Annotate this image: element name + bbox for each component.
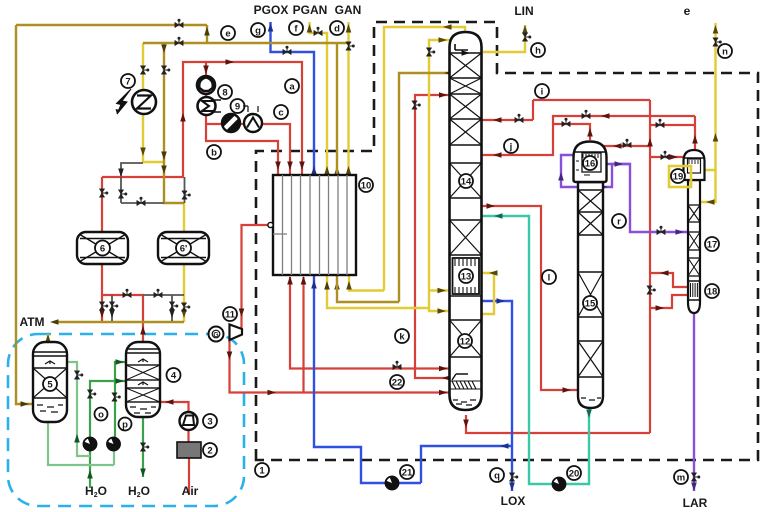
- wire red header y177: [102, 176, 184, 178]
- wire argon loop at condenser 16: [561, 155, 630, 187]
- text LAR: [683, 496, 708, 510]
- svg-text:g: g: [255, 26, 261, 37]
- wire stream c: booster discharge via aftercooler to HX: [206, 124, 290, 175]
- label 22: [390, 375, 404, 389]
- wire crude oxygen column 12 bottom to riser x650: [466, 415, 650, 433]
- svg-text:l: l: [548, 273, 551, 284]
- svg-text:2: 2: [207, 446, 212, 457]
- svg-text:16: 16: [585, 159, 596, 170]
- pipe light green water: [48, 362, 114, 465]
- turboexpander 11: [230, 325, 243, 341]
- bright yellow arrows: [45, 24, 718, 343]
- label 17: [705, 237, 719, 251]
- svg-text:17: 17: [707, 240, 718, 251]
- wire valved jumper y125: [650, 124, 695, 126]
- wire stream r: crude argon to column 17: [604, 164, 688, 232]
- motor G: [209, 327, 224, 342]
- svg-text:3: 3: [207, 417, 212, 428]
- wire PGOX product from HX top: [271, 22, 315, 175]
- text PGAN: [293, 3, 328, 17]
- pipe purple argon: [561, 155, 694, 491]
- svg-text:G: G: [213, 332, 219, 339]
- water pump p (right): [107, 438, 120, 451]
- label r: [612, 214, 626, 228]
- grey arrows: [109, 169, 175, 319]
- green arrows: [74, 359, 146, 478]
- condenser 13 internals: [453, 258, 480, 294]
- svg-text:8: 8: [222, 88, 227, 99]
- label 15: [583, 296, 597, 310]
- label 20: [567, 466, 581, 480]
- label a: [285, 79, 299, 93]
- wire LIN product from column 14: [483, 25, 525, 52]
- wire regeneration crossover header: [121, 177, 185, 203]
- LOX pump 21: [386, 477, 399, 490]
- wire PGAN product riser: [310, 22, 328, 175]
- wire riser to condenser 16: [604, 145, 650, 147]
- olive arrows: [21, 27, 453, 407]
- wire LOX product outlet: [511, 446, 513, 491]
- label 18: [705, 284, 719, 298]
- booster pump stage: [222, 114, 240, 132]
- wire HX bottom outlet to turbine exhaust line: [302, 277, 304, 393]
- water pump o (left): [84, 438, 97, 451]
- label e: [221, 26, 235, 40]
- svg-text:12: 12: [460, 337, 471, 348]
- label 19: [671, 169, 685, 183]
- column 15 shell: [578, 182, 603, 408]
- text H2O (left): [85, 484, 107, 499]
- text LOX: [501, 494, 526, 508]
- svg-text:k: k: [399, 332, 405, 343]
- wire condenser 13 side loop: [482, 273, 494, 314]
- wire HX cold end yellow riser 3: [327, 276, 429, 308]
- svg-text:n: n: [722, 47, 728, 58]
- wire ATM vent header: [57, 321, 184, 323]
- wire compressor 3 to adsorber 4 and air intake via filter 2: [160, 402, 189, 494]
- wire vent manifold stubs: [112, 295, 184, 321]
- label l: [542, 270, 556, 284]
- wire feed column 14 to column 15: [482, 206, 578, 390]
- wire air stream a: riser x183 to top header y62 into HX: [183, 62, 302, 177]
- label 21: [400, 465, 414, 479]
- svg-text:11: 11: [225, 310, 236, 321]
- label d: [330, 21, 344, 35]
- svg-text:14: 14: [461, 177, 472, 188]
- text GAN: [335, 3, 362, 17]
- wire nitrogen through compressor 7: [143, 43, 164, 162]
- wire waste nitrogen from column 14: [399, 73, 450, 302]
- label 6': [176, 241, 191, 256]
- chilled water unit dashed cyan boundary: [8, 334, 244, 506]
- svg-text:7: 7: [125, 77, 130, 88]
- svg-text:d: d: [334, 24, 340, 35]
- valves: [74, 19, 722, 481]
- label 5: [43, 377, 57, 391]
- wire vessel 5 bottom water to pump p: [48, 421, 114, 465]
- label q: [490, 468, 504, 482]
- wire H2O feed to pump o: [89, 450, 91, 488]
- pipe blue oxygen: [271, 22, 513, 491]
- svg-text:ATM: ATM: [19, 315, 44, 329]
- wire stream j: condenser 19 vapour to column 14: [482, 116, 695, 155]
- svg-text:GAN: GAN: [335, 3, 362, 17]
- text H2O (right): [128, 484, 150, 499]
- svg-text:h: h: [535, 46, 541, 57]
- wire regen nitrogen drop x164: [164, 43, 184, 203]
- label 2: [203, 443, 217, 457]
- wire nitrogen header y43: [143, 42, 349, 44]
- svg-text:18: 18: [707, 287, 718, 298]
- text PGOX: [254, 3, 289, 17]
- wire GAN product riser: [347, 22, 349, 175]
- wire stub into condenser 13: [429, 289, 450, 291]
- wire stream e header y25: [16, 25, 207, 43]
- label h: [531, 43, 545, 57]
- svg-text:Air: Air: [182, 484, 199, 498]
- water scrubber vessel 5: [33, 342, 67, 422]
- wire condenser 16 top branch: [553, 124, 590, 140]
- svg-text:c: c: [278, 108, 283, 119]
- condenser 16 head: [574, 142, 607, 183]
- column 17 shell: [688, 180, 700, 313]
- wire LOX from column 12 sump: [479, 301, 512, 446]
- purple arrows: [558, 161, 697, 491]
- wire air manifold to adsorber 4: [102, 295, 143, 342]
- blue arrows: [268, 23, 515, 491]
- wire reboiler 18 lower loop: [650, 295, 689, 308]
- label p: [119, 418, 132, 431]
- pipe bright yellow nitrogen: [48, 22, 716, 342]
- text e (top right): [684, 4, 691, 18]
- pipe red air row to compressors: [102, 62, 450, 494]
- svg-text:PGAN: PGAN: [293, 3, 328, 17]
- liquid pump 20: [553, 478, 566, 491]
- pipe teal liquid recycle: [482, 216, 589, 484]
- electric drive lightning bolt: [116, 89, 132, 114]
- booster compressor stage 9: [198, 97, 222, 115]
- label 7: [121, 74, 135, 88]
- main heat exchanger 10: [268, 175, 356, 275]
- label 13: [459, 269, 473, 283]
- wire boosted air HX bottom to column 12: [290, 277, 450, 369]
- wire vessel 4 water drain: [142, 417, 144, 477]
- svg-text:LOX: LOX: [501, 494, 526, 508]
- wire compressor 8/9 interconnects: [205, 62, 207, 124]
- svg-text:LAR: LAR: [683, 496, 708, 510]
- text Air: [182, 484, 199, 498]
- wire reboiler 18 upper loop: [650, 273, 689, 287]
- wire pump o discharge to vessel 4 sprays: [90, 381, 126, 438]
- wire stream e riser at column 17: [714, 23, 716, 170]
- label b: [207, 145, 221, 159]
- label f: [289, 21, 303, 35]
- label c: [274, 105, 288, 119]
- svg-text:r: r: [617, 217, 621, 228]
- svg-text:21: 21: [402, 468, 413, 479]
- wire stream b: booster branch to HX: [206, 124, 278, 175]
- pipe olive waste nitrogen: [16, 25, 450, 404]
- label 10: [359, 178, 373, 192]
- label j: [504, 139, 518, 153]
- wire pump p discharge to vessel 4 top sprays: [115, 362, 126, 438]
- air filter 2: [177, 442, 201, 458]
- booster compressor stage 8: [197, 76, 215, 94]
- wire rich liquid column 12 to column 14 via valve: [415, 95, 450, 378]
- label 1: [255, 463, 269, 477]
- svg-text:o: o: [98, 410, 104, 421]
- label 16: [583, 156, 597, 170]
- wire HX cold end yellow riser 2: [337, 276, 399, 302]
- wire LAR product from column 17 bottom: [693, 313, 695, 491]
- label i: [535, 84, 549, 98]
- label m: [674, 470, 688, 484]
- svg-text:9: 9: [235, 102, 240, 113]
- double column 12/14 shell: [450, 32, 482, 410]
- svg-text:13: 13: [461, 272, 472, 283]
- wire riser to condenser 19: [650, 156, 684, 158]
- wire condenser 19 side loop: [700, 170, 716, 202]
- wire vent vessel 5 top: [47, 334, 49, 342]
- label g: [251, 23, 265, 37]
- main air compressor 3: [180, 412, 198, 430]
- evaporative cooler 6': [158, 232, 209, 264]
- teal arrows: [494, 213, 592, 418]
- label 4: [167, 368, 181, 382]
- svg-text:i: i: [541, 87, 544, 98]
- svg-text:q: q: [494, 471, 500, 482]
- label n: [718, 44, 732, 58]
- label 9: [231, 99, 245, 113]
- wire condenser 19 top riser: [694, 116, 696, 152]
- svg-text:6: 6: [100, 244, 105, 255]
- recycle compressor 7: [132, 90, 156, 114]
- svg-text:m: m: [677, 473, 685, 484]
- label 11: [223, 307, 237, 321]
- svg-text:e: e: [225, 29, 230, 40]
- aftercooler: [243, 106, 262, 132]
- text LIN: [514, 4, 533, 18]
- wire stream i: riser top to column 14: [482, 100, 650, 120]
- svg-text:15: 15: [585, 299, 596, 310]
- wire air through cooler 6 and vent stub: [101, 177, 103, 322]
- svg-text:p: p: [122, 420, 128, 431]
- reboiler 18 internals: [689, 281, 700, 300]
- svg-text:6': 6': [180, 244, 188, 255]
- svg-text:5: 5: [47, 380, 53, 391]
- text ATM: [19, 315, 44, 329]
- label o: [95, 408, 108, 421]
- wire regen gas through cooler 6' to ATM: [183, 203, 185, 322]
- wire pump 21 discharge to HX: [314, 275, 421, 483]
- svg-text:LIN: LIN: [514, 4, 533, 18]
- wire GN2 from column 14 apex down to HX row: [384, 27, 465, 291]
- wire riser x650: [649, 100, 651, 433]
- label 6: [95, 241, 110, 256]
- evaporative cooler 6: [77, 232, 128, 264]
- yellow highlight box at 19: [669, 166, 691, 187]
- pipe green water: [90, 362, 143, 488]
- red arrows (left block): [99, 59, 450, 405]
- wire LOX to pump 21: [421, 446, 512, 483]
- wire stream e down west side to vessel 5: [16, 25, 33, 404]
- svg-text:PGOX: PGOX: [254, 3, 289, 17]
- adsorber vessel 4: [126, 342, 160, 417]
- label 8: [218, 85, 232, 99]
- svg-text:19: 19: [673, 172, 684, 183]
- svg-text:j: j: [509, 142, 513, 153]
- svg-text:20: 20: [569, 469, 580, 480]
- wire liquid from column 15 bottom via pump 20 to column 14: [482, 216, 589, 484]
- svg-text:a: a: [289, 82, 295, 93]
- wire HX cold end yellow riser 1: [349, 276, 384, 291]
- cold box dashed boundary: [256, 22, 758, 460]
- svg-text:b: b: [211, 148, 217, 159]
- red arrows (cold box): [463, 113, 698, 428]
- condenser 19 head: [684, 150, 705, 180]
- label 14: [459, 174, 473, 188]
- wire turbine air: HX side outlet via expander 11 to column 12: [230, 225, 450, 393]
- svg-text:4: 4: [171, 371, 177, 382]
- svg-text:10: 10: [361, 181, 372, 192]
- wire vessel 5 side water line: [67, 362, 90, 456]
- svg-text:1: 1: [259, 466, 265, 477]
- pipe grey regeneration: [112, 163, 185, 321]
- label 12: [458, 334, 472, 348]
- svg-text:22: 22: [392, 378, 403, 389]
- svg-text:e: e: [684, 4, 691, 18]
- pipe red cold-box network: [466, 100, 695, 433]
- wire reflux to column 14 top: [429, 40, 452, 311]
- wire riser HX to header y43: [336, 43, 338, 175]
- label 3: [203, 414, 217, 428]
- wire drain from nitrogen junction: [121, 163, 143, 176]
- label k: [395, 329, 409, 343]
